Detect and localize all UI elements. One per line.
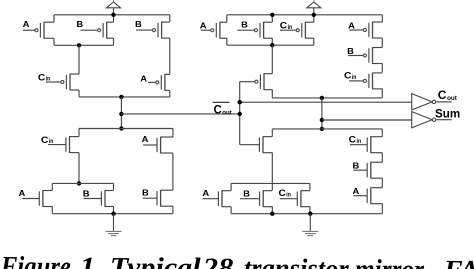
svg-text:A: A xyxy=(19,188,26,198)
svg-text:B: B xyxy=(241,20,248,30)
svg-text:Sum: Sum xyxy=(435,108,460,121)
svg-text:A: A xyxy=(142,134,149,144)
svg-text:B: B xyxy=(83,188,90,198)
svg-text:C: C xyxy=(214,104,222,116)
svg-text:B: B xyxy=(135,19,142,29)
svg-text:B: B xyxy=(142,187,149,197)
svg-text:A: A xyxy=(348,20,355,30)
svg-text:C: C xyxy=(438,88,447,102)
svg-text:out: out xyxy=(447,95,458,102)
svg-text:B: B xyxy=(76,19,83,29)
svg-text:B: B xyxy=(347,46,354,56)
svg-text:in: in xyxy=(357,138,362,145)
svg-text:in: in xyxy=(49,138,54,145)
svg-text:A: A xyxy=(202,188,209,198)
svg-text:in: in xyxy=(286,192,291,199)
svg-text:in: in xyxy=(46,76,51,83)
svg-text:in: in xyxy=(288,24,293,31)
svg-text:out: out xyxy=(222,110,231,116)
svg-text:in: in xyxy=(352,74,357,81)
svg-text:B: B xyxy=(353,161,360,171)
svg-text:B: B xyxy=(243,189,250,199)
svg-text:A: A xyxy=(23,19,30,29)
svg-text:A: A xyxy=(353,186,360,196)
svg-text:A: A xyxy=(140,74,147,84)
svg-text:A: A xyxy=(200,21,207,31)
